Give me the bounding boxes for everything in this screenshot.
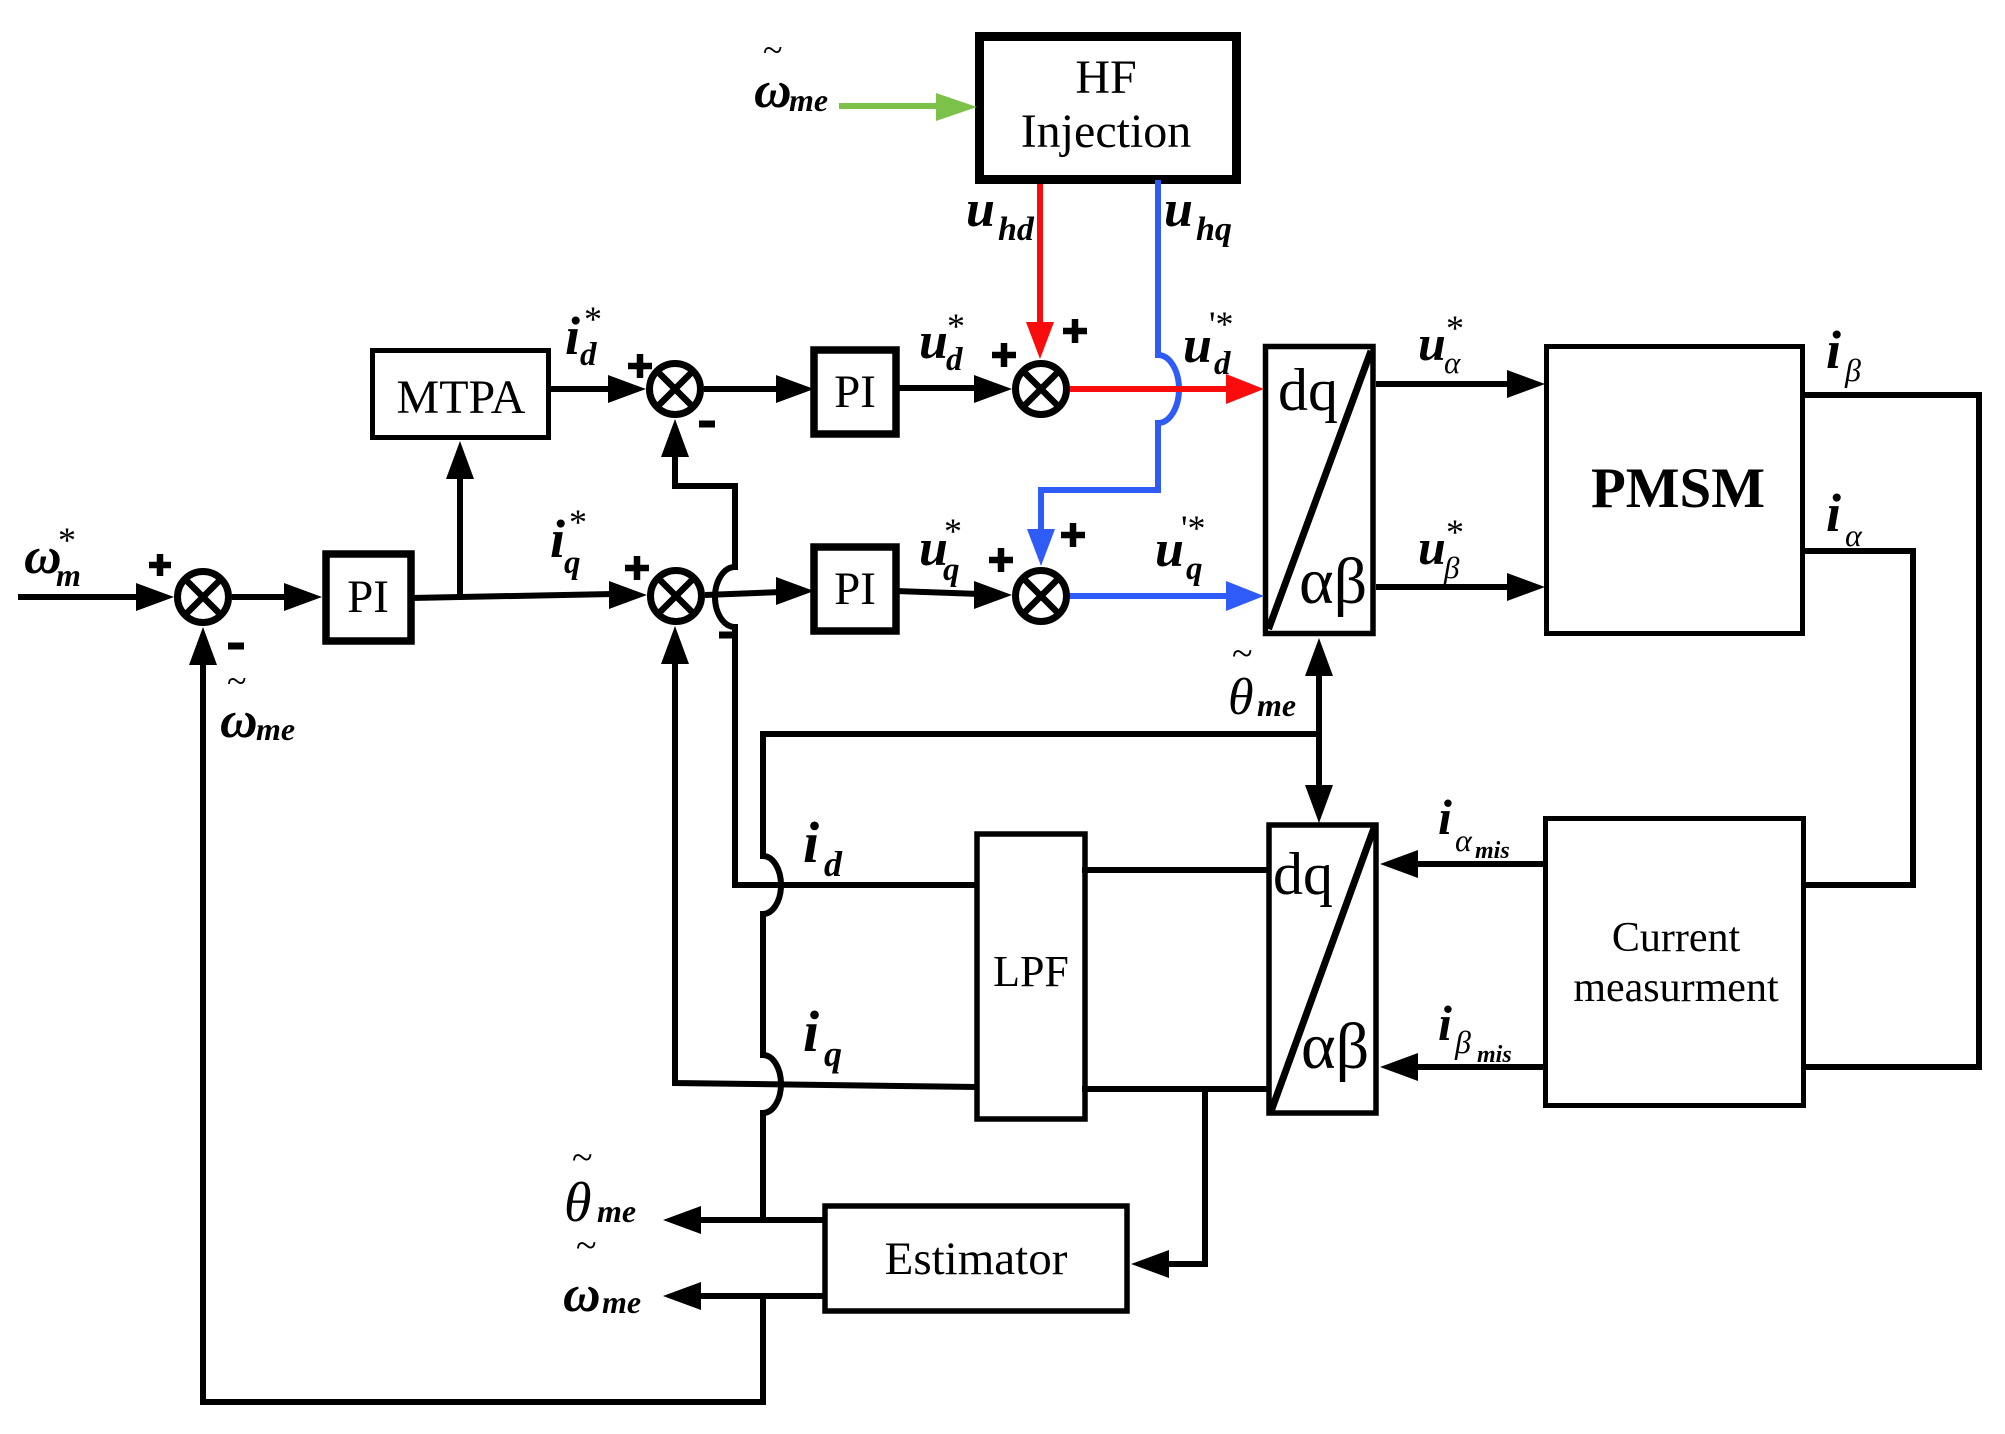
- label plus at speed junction: [149, 554, 171, 576]
- svg-text:i: i: [803, 810, 819, 875]
- label u_hq: [1164, 181, 1232, 248]
- svg-text:dq: dq: [1273, 841, 1333, 907]
- svg-text:MTPA: MTPA: [397, 371, 526, 424]
- block PI q-axis current controller: [814, 547, 896, 631]
- svg-text:ω: ω: [220, 692, 258, 749]
- svg-text:PI: PI: [834, 563, 876, 615]
- svg-text:αβ: αβ: [1301, 1010, 1369, 1083]
- svg-text:Injection: Injection: [1021, 105, 1192, 158]
- svg-text:u: u: [919, 313, 948, 370]
- label plus at q error junction: [625, 556, 649, 580]
- svg-text:dq: dq: [1278, 357, 1338, 423]
- block Estimator: [825, 1206, 1127, 1311]
- wire theta_me vertical branch with hops over id and iq lines: [763, 731, 781, 1220]
- label id feedback: [803, 810, 843, 884]
- svg-text:m: m: [56, 557, 81, 593]
- svg-text:d: d: [580, 337, 597, 373]
- label ubeta*: [1418, 512, 1464, 585]
- label theta_me at dq transforms: [1228, 633, 1296, 726]
- wire PI speed output to q error junction (iq*): [411, 581, 647, 609]
- wire PI q output to q voltage summing junction (uq*): [896, 581, 1012, 609]
- label ibeta_mis: [1438, 995, 1512, 1068]
- svg-text:me: me: [789, 82, 828, 118]
- svg-text:hq: hq: [1196, 211, 1232, 248]
- svg-text:*: *: [1446, 308, 1464, 348]
- label minus at q error junction: [719, 632, 735, 639]
- wire ialpha PMSM to current measurment: [1803, 551, 1913, 885]
- wire omega_m* input: [18, 583, 174, 611]
- label ualpha*: [1418, 308, 1464, 380]
- label omega_me speed feedback: [220, 661, 295, 749]
- label ialpha_mis: [1438, 789, 1510, 864]
- svg-text:'*: '*: [1209, 304, 1234, 344]
- svg-text:i: i: [1438, 789, 1452, 845]
- svg-text:me: me: [256, 711, 295, 747]
- svg-text:θ: θ: [1228, 669, 1254, 726]
- svg-text:u: u: [1418, 519, 1446, 575]
- label plus right at q voltage junction: [1061, 523, 1085, 547]
- label uq*: [919, 511, 962, 588]
- wire PI d output to d voltage summing junction (ud*): [896, 375, 1012, 403]
- wire ubeta* dq to PMSM: [1376, 573, 1545, 601]
- wire id feedback from LPF to d error junction (hop over q wire): [661, 419, 978, 885]
- svg-text:i: i: [565, 306, 580, 366]
- label u_hd: [966, 181, 1035, 248]
- wire ibeta PMSM to current measurment: [1803, 395, 1979, 1067]
- svg-text:i: i: [1826, 320, 1841, 380]
- svg-text:α: α: [1845, 517, 1863, 553]
- svg-text:u: u: [1164, 181, 1193, 238]
- wire ialpha_mis current measurment to dq transform: [1380, 850, 1543, 878]
- svg-text:*: *: [947, 306, 965, 346]
- svg-text:'*: '*: [1181, 508, 1206, 548]
- svg-text:q: q: [824, 1034, 842, 1074]
- svg-text:PMSM: PMSM: [1591, 457, 1765, 520]
- svg-text:β: β: [1844, 352, 1861, 388]
- svg-text:α: α: [1444, 345, 1461, 380]
- label u'q*: [1155, 508, 1206, 587]
- svg-text:hd: hd: [998, 211, 1035, 248]
- svg-text:PI: PI: [347, 571, 389, 623]
- label ud*: [919, 306, 965, 378]
- svg-text:ω: ω: [563, 1266, 601, 1323]
- wire blue u'q* output to dq transform: [1070, 581, 1264, 611]
- svg-text:d: d: [824, 844, 843, 884]
- svg-text:q: q: [943, 552, 960, 588]
- wire red u'd* output to dq transform: [1070, 374, 1264, 404]
- wire dq transform d output to LPF: [1082, 867, 1271, 873]
- svg-text:i: i: [1438, 995, 1452, 1051]
- svg-text:αβ: αβ: [1299, 545, 1367, 618]
- label plus at d error junction: [628, 354, 652, 378]
- svg-text:β: β: [1454, 1024, 1471, 1060]
- svg-text:β: β: [1443, 550, 1460, 585]
- wire theta_me output of Estimator: [663, 1206, 825, 1234]
- svg-text:q: q: [1186, 551, 1203, 587]
- label minus at d error junction: [699, 421, 715, 428]
- svg-text:d: d: [946, 342, 963, 378]
- svg-text:*: *: [944, 511, 962, 551]
- label iq feedback: [803, 999, 842, 1074]
- label plus right at d voltage junction: [1063, 319, 1087, 343]
- svg-text:q: q: [564, 545, 581, 581]
- svg-text:i: i: [803, 999, 819, 1064]
- block Current measurment: [1546, 819, 1804, 1106]
- block PMSM motor: [1547, 347, 1803, 634]
- label u'd*: [1183, 304, 1234, 382]
- svg-text:Estimator: Estimator: [885, 1233, 1068, 1285]
- svg-text:u: u: [1418, 315, 1446, 371]
- svg-text:LPF: LPF: [993, 947, 1069, 996]
- block LPF low pass filter: [977, 834, 1085, 1119]
- label plus left at d voltage junction: [992, 343, 1016, 367]
- wire theta_me horizontal feedback line: [763, 731, 1319, 737]
- summing junction C q-axis current error: [651, 571, 702, 622]
- svg-text:*: *: [58, 520, 76, 560]
- block PI speed controller: [326, 554, 411, 641]
- svg-text:i: i: [550, 509, 565, 569]
- wire tee up to MTPA input: [446, 441, 474, 597]
- wire d error junction to PI d: [704, 375, 814, 403]
- svg-text:me: me: [597, 1193, 636, 1229]
- block dq/alphabeta transform (bottom): [1269, 825, 1376, 1113]
- summing junction A speed error: [178, 572, 229, 623]
- wire MTPA output to d error junction (id*): [548, 375, 646, 403]
- wire dq transform q output to LPF with tee to Estimator: [1082, 1086, 1271, 1092]
- svg-text:u: u: [966, 181, 995, 238]
- svg-text:*: *: [584, 299, 602, 339]
- wire speed junction to PI: [232, 583, 322, 611]
- wire tee down to Estimator input: [1131, 1089, 1205, 1278]
- wire ualpha* dq to PMSM: [1376, 370, 1545, 398]
- summing junction B d-axis current error: [650, 364, 701, 415]
- label omega_m* input: [24, 520, 81, 593]
- wire green omega_me into HF Injection: [839, 93, 977, 121]
- svg-text:i: i: [1826, 483, 1841, 543]
- wire red u_hd from HF Injection to d summing junction: [1026, 184, 1054, 359]
- label omega_me Estimator output: [563, 1225, 641, 1323]
- block HF Injection U1: [980, 37, 1237, 180]
- label theta_me Estimator output: [564, 1137, 636, 1234]
- svg-text:PI: PI: [834, 366, 876, 418]
- svg-text:*: *: [569, 502, 587, 542]
- summing junction E q-axis voltage sum: [1016, 571, 1067, 622]
- wire blue u_hq from HF Injection to q summing junction (with hop over red wire): [1027, 180, 1179, 566]
- wire q error junction to PI q: [705, 577, 814, 605]
- label iq*: [550, 502, 587, 581]
- svg-text:HF: HF: [1075, 51, 1136, 104]
- svg-text:u: u: [1183, 317, 1212, 374]
- wire iq feedback from LPF to q error junction: [661, 626, 978, 1087]
- wire theta_me vertical double arrow between dq blocks: [1305, 638, 1333, 823]
- svg-text:measurment: measurment: [1573, 965, 1779, 1011]
- label id* MTPA output: [565, 299, 602, 373]
- block dq/alphabeta inverse transform (top): [1266, 347, 1374, 634]
- wire omega_me output of Estimator: [663, 1282, 825, 1310]
- block PI d-axis current controller: [814, 350, 896, 434]
- wire omega_me speed feedback to speed summing junction: [189, 627, 763, 1402]
- label ialpha PMSM output: [1826, 483, 1863, 553]
- label omega_me tilde (HF input): [754, 30, 828, 119]
- svg-text:mis: mis: [1475, 838, 1510, 864]
- svg-text:Current: Current: [1612, 915, 1741, 961]
- svg-text:me: me: [602, 1284, 641, 1320]
- label minus at speed junction: [228, 643, 244, 650]
- svg-text:*: *: [1446, 512, 1464, 552]
- svg-text:mis: mis: [1477, 1042, 1512, 1068]
- summing junction D d-axis voltage sum: [1016, 364, 1067, 415]
- svg-text:d: d: [1214, 346, 1231, 382]
- svg-text:ω: ω: [754, 62, 792, 119]
- svg-text:α: α: [1455, 822, 1473, 858]
- svg-text:~: ~: [576, 1225, 597, 1267]
- svg-text:me: me: [1257, 687, 1296, 723]
- label ibeta PMSM output: [1826, 320, 1861, 388]
- wire ibeta_mis current measurment to dq transform: [1380, 1053, 1543, 1081]
- label plus left at q voltage junction: [989, 548, 1013, 572]
- svg-text:u: u: [1155, 521, 1184, 578]
- block MTPA: [373, 351, 549, 438]
